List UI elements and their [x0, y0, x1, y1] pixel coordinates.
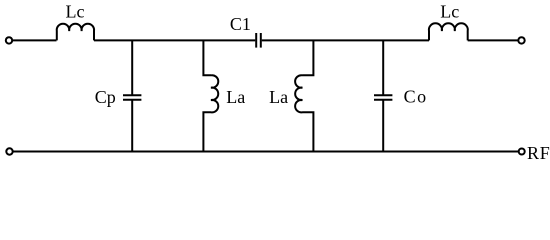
svg-text:Lc: Lc [66, 1, 85, 21]
wire bottom rail [13, 151, 518, 153]
terminal top-left [6, 37, 12, 43]
wire shunt Co bottom [382, 101, 384, 152]
inductor Lc (right) [429, 23, 468, 40]
svg-text:Cp: Cp [95, 87, 116, 107]
svg-text:La: La [269, 87, 288, 107]
terminal top-right [518, 37, 524, 43]
svg-text:La: La [226, 87, 245, 107]
svg-text:C1: C1 [230, 14, 251, 34]
wire top rail segment 4 [468, 39, 518, 41]
svg-text:Co: Co [404, 87, 428, 107]
terminal bottom-left [6, 148, 12, 154]
wire top rail segment 3 [262, 39, 429, 41]
wire top rail segment 1 [13, 39, 57, 41]
inductor Lc (left) [57, 24, 94, 41]
wire shunt Co top [382, 40, 384, 94]
terminal RF bottom-right [519, 149, 525, 155]
svg-text:Lc: Lc [440, 1, 459, 21]
capacitor Co [374, 95, 392, 99]
svg-text:RF: RF [527, 143, 550, 163]
inductor La (left) with shunt wires [203, 40, 218, 151]
wire top rail segment 2 [94, 39, 255, 41]
capacitor Cp [123, 95, 141, 99]
inductor La (right) with shunt wires [295, 40, 313, 151]
wire shunt Cp top [131, 40, 133, 94]
capacitor C1 [256, 33, 261, 48]
wire shunt Cp bottom [131, 101, 133, 152]
